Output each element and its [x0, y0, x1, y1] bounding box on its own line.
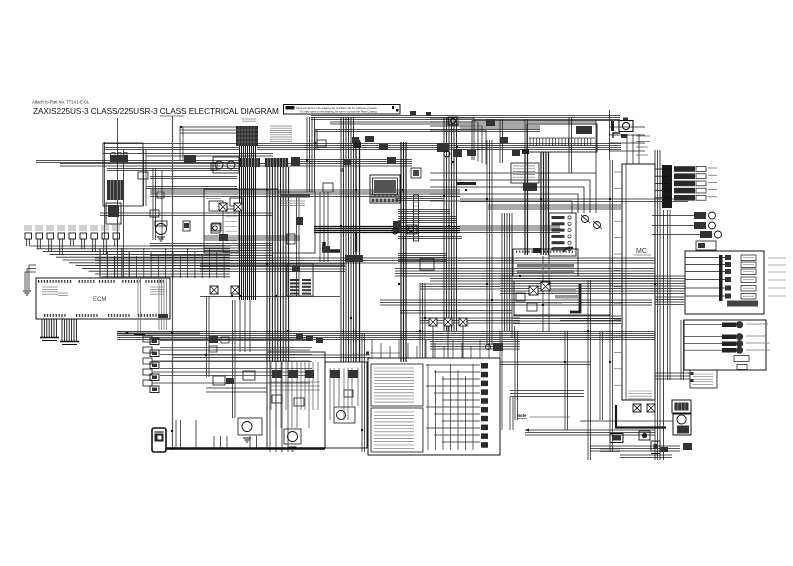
wire right low a	[580, 420, 673, 422]
svg-text:MC: MC	[636, 248, 647, 255]
wire bus F2	[107, 169, 240, 179]
wire pair x600	[600, 331, 603, 420]
wire bundle x267 lower	[270, 362, 288, 452]
component dk1	[184, 155, 196, 163]
component dk5	[211, 224, 220, 233]
wire bus K2	[204, 236, 462, 240]
wire drops into fusebox	[372, 340, 489, 358]
wire gauge stubs	[609, 110, 650, 160]
wire bus S	[173, 355, 370, 358]
title text	[33, 106, 279, 116]
hour meter gauge	[619, 118, 633, 132]
relay box assembly	[514, 281, 610, 315]
relay X pair a	[219, 203, 242, 211]
svg-text:Note: Note	[517, 413, 527, 418]
component topk1	[352, 137, 359, 143]
component c	[150, 210, 159, 217]
switch circle a	[581, 215, 590, 223]
relay group below ECM	[150, 338, 159, 393]
wire bus F	[36, 160, 412, 167]
wire bus N	[420, 284, 500, 289]
component w	[486, 343, 504, 351]
relay box B motor	[334, 407, 355, 423]
sensor connectors left column	[143, 336, 310, 386]
pressure sensor label box	[690, 370, 717, 388]
monitor display	[370, 175, 400, 203]
wire misc b	[500, 331, 502, 430]
thick corner x356	[355, 233, 357, 252]
wire bus E	[103, 154, 273, 157]
fuse box	[368, 358, 500, 455]
pump box	[672, 400, 691, 413]
wire bundle x399 dark	[401, 142, 406, 362]
wire into washer relay	[206, 388, 267, 392]
sensor unit box	[684, 320, 766, 370]
wire bundle x541	[525, 152, 549, 255]
component v	[243, 371, 255, 380]
component cr1	[467, 150, 476, 156]
hook arrow	[563, 248, 573, 253]
wire bus J	[100, 213, 456, 223]
wire pair x610	[610, 160, 613, 452]
key switch SW1	[152, 428, 166, 452]
component cluster box A top	[296, 334, 323, 343]
wire bundle x307	[307, 117, 315, 192]
wire through ECM right a	[134, 278, 145, 335]
grid block labels	[270, 126, 292, 141]
fuel pump component	[107, 180, 124, 200]
svg-text:ECM: ECM	[93, 297, 106, 303]
component tb1	[410, 111, 431, 116]
wire triple x487	[487, 140, 492, 345]
wire pair x569	[569, 117, 572, 173]
relay unit box A	[267, 352, 325, 448]
wire bottom left links	[160, 341, 312, 376]
diode row above fusebox	[429, 318, 467, 358]
fuse box header	[366, 352, 400, 355]
wire long bus MR	[395, 269, 655, 294]
component cr4	[322, 246, 330, 252]
diode group b	[652, 222, 716, 229]
wire bus into grid block	[180, 127, 237, 160]
wire x596	[595, 120, 597, 173]
terminal block flat	[513, 247, 578, 276]
connector row above ECM	[24, 226, 120, 255]
wire MC bottom left exits	[510, 391, 584, 431]
box A components	[272, 370, 314, 406]
MC bottom text	[628, 391, 652, 399]
wire bus D	[104, 144, 621, 150]
component i	[287, 234, 295, 244]
fuse box wiring mesh	[426, 364, 480, 450]
wire bus G	[150, 190, 460, 201]
alternator circle	[155, 221, 167, 241]
motor box	[673, 414, 691, 435]
grid block top labels	[242, 119, 256, 121]
component f	[212, 223, 221, 231]
micro marks bottom right	[600, 449, 620, 452]
wire bundle x267	[267, 167, 289, 362]
wire bus H	[460, 199, 688, 202]
component x1	[486, 119, 495, 126]
grid connector block	[236, 126, 258, 146]
wire bus x513 to MC	[513, 316, 621, 324]
wire bus P	[400, 311, 512, 314]
component m	[407, 225, 417, 234]
box B extra wires	[330, 368, 362, 420]
wire bundle grid down lower	[240, 300, 250, 352]
component g	[219, 234, 228, 241]
component dk3	[157, 192, 164, 198]
component br1	[660, 447, 668, 452]
wire pair x296	[297, 197, 300, 296]
wire pair x681	[681, 320, 684, 380]
part number note	[32, 100, 90, 105]
wire mesh into ECM	[30, 246, 230, 278]
MC inner border	[625, 164, 627, 400]
wire bus M	[200, 264, 345, 272]
component box e	[230, 198, 242, 206]
box A extra wires	[270, 362, 320, 410]
svg-text:Parts numbers on the drawing a: Parts numbers on the drawing are provide…	[296, 106, 378, 110]
wire top border loop	[472, 121, 621, 161]
component bottom right	[683, 443, 692, 450]
wiper relay	[284, 429, 301, 451]
svg-text:To order parts on the drawing,: To order parts on the drawing, be sure t…	[300, 109, 377, 113]
wire triple x420	[420, 283, 425, 358]
component topk3	[379, 144, 388, 150]
wire x663 long	[663, 210, 665, 460]
component x2	[448, 117, 458, 125]
ECM controller	[36, 278, 170, 319]
MC output harness	[662, 165, 672, 208]
connector CN2	[265, 158, 288, 167]
connector right low	[610, 434, 623, 443]
wire dark pair x356	[354, 140, 361, 362]
ECM ground harness	[40, 319, 79, 345]
component u	[213, 376, 234, 385]
wire pair x232	[233, 300, 236, 418]
wire vertical x117	[117, 118, 119, 278]
wire ECM right pair	[117, 332, 200, 335]
component l	[523, 183, 537, 191]
wire bus D2	[104, 148, 240, 150]
washer relay	[238, 418, 262, 442]
connector CN3	[291, 157, 300, 166]
wire MC to sensor label box	[655, 373, 690, 379]
connector CN1	[240, 158, 260, 167]
switch box with header	[278, 192, 315, 253]
wire pair x206	[207, 296, 210, 377]
pressure switch box	[549, 213, 576, 256]
MC controller	[622, 164, 655, 400]
switch circle b	[593, 221, 602, 229]
ISO connector cluster	[287, 264, 313, 296]
wire top bus A	[311, 116, 620, 120]
terminal strip box	[527, 124, 597, 152]
box A wires	[276, 362, 309, 428]
wire ECM left exit	[23, 265, 36, 295]
connector box CB	[511, 163, 539, 183]
wire pair x143	[144, 150, 147, 206]
wire long bus above ECM	[95, 258, 655, 266]
component h	[296, 217, 303, 225]
wire top bus B	[330, 122, 596, 124]
cab harness box	[204, 189, 278, 253]
wire vertical x123	[123, 150, 125, 278]
caution note box	[284, 105, 401, 115]
thick corner bottom right	[616, 405, 666, 428]
wire top bus C	[315, 130, 540, 151]
wire bundle x341	[341, 117, 354, 362]
svg-text:Attach to Part No. TT1V1-E-01: Attach to Part No. TT1V1-E-01	[32, 100, 90, 105]
wire pair x153	[153, 168, 162, 240]
diode group a	[652, 212, 716, 219]
note text	[517, 413, 570, 419]
wire bundle into U2	[655, 297, 684, 305]
component n	[393, 221, 401, 232]
gauge hook	[613, 133, 627, 138]
wire through ECM right b	[158, 278, 168, 330]
wire misc c	[500, 362, 590, 365]
component cr3	[512, 150, 520, 156]
component bl1	[209, 336, 229, 343]
wire risers from battery line	[176, 420, 257, 448]
wire MC to solenoid box	[655, 276, 685, 294]
wire triple x655	[655, 150, 660, 460]
component p	[345, 255, 363, 262]
wire pair x362	[362, 333, 365, 452]
wire bus I	[398, 205, 621, 214]
relay unit box B	[325, 362, 367, 448]
wire right low arrows	[525, 429, 655, 436]
junction block a	[522, 149, 541, 253]
wire bus L2	[398, 254, 447, 262]
wire thick battery line	[166, 447, 325, 450]
wire bus Q	[420, 318, 621, 323]
wire bus R	[430, 342, 520, 350]
relay X pair b	[210, 286, 239, 294]
wire bus L	[150, 244, 273, 261]
relay R5	[106, 203, 121, 224]
component x3	[317, 140, 326, 147]
wire vertical key line	[160, 116, 184, 450]
small box o	[323, 183, 333, 192]
component s	[696, 241, 716, 250]
terminal bar a	[414, 195, 419, 241]
wire long mid bus	[117, 332, 655, 340]
component topk2	[365, 136, 374, 142]
relay row top	[437, 143, 462, 157]
wire misc a	[512, 326, 515, 338]
fusible link comb	[110, 153, 128, 163]
wire pair x515	[515, 331, 518, 420]
wire bundle x444	[444, 118, 457, 331]
component j	[411, 168, 421, 178]
component r	[392, 228, 398, 234]
small box bottom right	[651, 441, 660, 454]
wire vertical x104	[104, 142, 106, 239]
component cr2	[500, 137, 508, 143]
wire bus O	[380, 300, 652, 305]
svg-text:ZAXIS225US-3 CLASS/225USR-3 CL: ZAXIS225US-3 CLASS/225USR-3 CLASS ELECTR…	[33, 106, 279, 116]
wire corner drops	[430, 118, 486, 165]
connector k	[387, 157, 396, 164]
solenoid unit box	[685, 251, 764, 314]
dark corner bracket	[324, 242, 340, 251]
wire verticals x502	[502, 213, 512, 331]
wire bus left extra	[146, 187, 273, 251]
wire verticals x320	[320, 192, 328, 262]
wire cluster center-right top	[460, 119, 540, 183]
MC pin stubs	[614, 172, 622, 385]
box B components	[330, 370, 358, 397]
gauge junction bar	[611, 121, 614, 131]
wire corner nest	[430, 173, 596, 213]
wire pair x565	[565, 331, 568, 430]
component under MC b	[639, 431, 650, 440]
component q	[420, 259, 434, 270]
component bl2	[209, 346, 217, 352]
fuse block J1	[103, 143, 143, 206]
MC connector rows	[655, 166, 717, 200]
wire pair x588	[588, 280, 591, 460]
wire bus K	[314, 226, 560, 233]
wire right bottom bundle	[590, 446, 680, 458]
connector k2	[341, 159, 351, 171]
thick bar mid	[456, 182, 476, 185]
sensor labels	[746, 324, 770, 350]
box B wires	[334, 368, 358, 406]
component box d	[209, 201, 223, 211]
wire bundle grid down	[240, 146, 256, 300]
wire pair x667	[668, 210, 671, 380]
diode group c	[652, 231, 722, 238]
component under MC a	[633, 404, 655, 412]
component dk4	[183, 221, 190, 231]
wire MC top entries	[627, 134, 639, 164]
horn relay pair	[213, 157, 239, 173]
component dk2	[211, 163, 217, 170]
U1 row labels right	[768, 258, 786, 296]
wire pair x543 low	[543, 256, 549, 331]
component small b	[138, 172, 148, 179]
wire bus mid-left	[200, 296, 340, 298]
wire junction dots	[126, 126, 656, 432]
